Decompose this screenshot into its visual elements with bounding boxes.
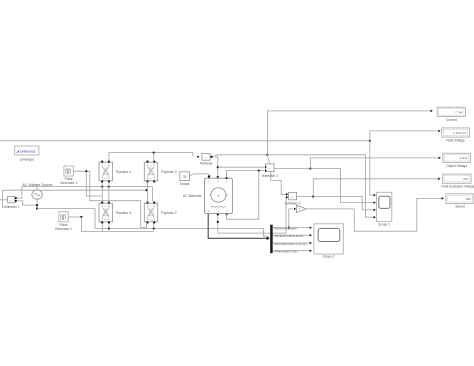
node junction pulse1 at (86.3,171.2) (85, 170, 87, 172)
label Voltmeter 3 (285, 201, 301, 205)
thyristor Thyristor 4 (99, 202, 112, 224)
wire A+ to Voltmeter2 port1 (218, 166, 265, 168)
wire F- to Voltmeter3 port2 (218, 196, 288, 233)
wire bus output 1 (Speed wm) (273, 226, 312, 229)
node junction V3-out at (313.3,196.5) (312, 195, 314, 197)
scope block Scope 2 (314, 224, 343, 254)
wire A- from DC Machine to junction (227, 171, 259, 220)
node junction minus-rail at Th4 (108, 227, 110, 229)
svg-text:+ -: + - (291, 196, 294, 199)
label Thyristor 4 (115, 211, 131, 215)
ammeter block Ammeter (202, 153, 213, 160)
svg-text:K: K (299, 207, 301, 211)
wire Pulse Generator 2 output (68, 216, 81, 218)
svg-text:Field Excitation Voltage: Field Excitation Voltage (441, 185, 474, 189)
wire Th4 cathode stub (108, 223, 110, 228)
label Scope 2 (323, 255, 335, 259)
wire diagonal stub near Voltmeter2 (267, 155, 269, 163)
wire net AC1 horizontal y=186.6 (22, 186, 153, 188)
node junction ammeter-signal at (267.4,154.8) (266, 154, 268, 156)
label Voltmeter 1 (3, 205, 19, 209)
display Output Voltage (443, 153, 471, 162)
wire V3 right to Scope1 port3 (313, 197, 376, 212)
display Field Excitation Voltage (443, 174, 472, 183)
svg-text:Generator 2: Generator 2 (55, 227, 72, 231)
wire V1 port1 hook to AC top net (17, 187, 22, 199)
node junction F+ tap at (270.8,170.6) (0, 0, 1, 1)
wire pulse1 branch to Thyristor1 gate (86, 171, 102, 196)
label Field Voltage (446, 138, 465, 142)
svg-text:Scope 2: Scope 2 (323, 255, 335, 259)
label Current (446, 118, 457, 122)
wire Gain input from speed tap (289, 208, 296, 228)
label Thyristor 2 (161, 211, 177, 215)
svg-text:-1.813: -1.813 (459, 156, 468, 160)
wire net minus-rail bottom (95, 229, 269, 237)
wire net plus-rail from Th1/Th3 cathodes to Ammeter (109, 153, 200, 162)
wire V2 right to Scope1 port2 (310, 168, 376, 204)
node junction AC bottom / V1 tap (36, 204, 38, 206)
node junction AC2 at x=146.5 (145, 189, 147, 191)
svg-text:30: 30 (183, 175, 187, 179)
svg-text:Scope 1: Scope 1 (378, 222, 390, 226)
node junction minus-rail at Th2 (153, 227, 155, 229)
svg-text:Ammeter: Ammeter (200, 161, 214, 165)
voltmeter V1 (Voltmeter 1) (8, 197, 17, 203)
wire M2 column Th3 bottom-left to Th2 top-left (147, 182, 149, 203)
thyristor Thyristor 2 (144, 202, 157, 224)
wire Gain output to Speed display via Scope-bypass (306, 197, 444, 231)
pin m output arrow (216, 214, 219, 216)
svg-text:+ -: + - (268, 168, 271, 171)
svg-text:m: m (208, 210, 210, 213)
svg-text:Speed: Speed (455, 205, 464, 209)
svg-text:Thyristor 1: Thyristor 1 (115, 170, 131, 174)
label Pulse Generator 2 (55, 223, 72, 231)
wire net ammeter-signal y=154.8 (216, 155, 268, 157)
wire Voltmeter3 port1 feed from field tap (271, 171, 289, 196)
svg-text:Field Voltage: Field Voltage (446, 138, 465, 142)
constant block Torque (180, 172, 190, 181)
signal label Armature current (273, 234, 304, 238)
wire bus output 3 (Electrical torque) (273, 242, 312, 245)
svg-text:Thyristor 4: Thyristor 4 (115, 211, 131, 215)
wire F+ up and right (227, 171, 265, 177)
wire V1-signal up-branch to Field Voltage display (370, 130, 441, 141)
wire M1 column Th1 bottom-right to Th4 top-right (108, 182, 110, 203)
voltmeter V2 (Voltmeter 2) (265, 164, 274, 172)
pulse generator Pulse Generator 2 (59, 212, 68, 222)
pin F+ input arrow (225, 176, 228, 178)
node junction AC bottom / loop (36, 207, 38, 209)
label DC Machine (183, 194, 202, 198)
svg-text:Thyristor 2: Thyristor 2 (161, 211, 177, 215)
wire pulse2 gate run (81, 217, 154, 232)
svg-text:Output Voltage: Output Voltage (446, 164, 467, 168)
svg-text:<Electrical torque Te (N m)>: <Electrical torque Te (N m)> (273, 242, 307, 246)
wire AC source top stub (36, 187, 38, 190)
pin A+ input arrow (216, 176, 219, 178)
node junction F- at (217.8,221.8) (217, 221, 219, 223)
svg-text:Current: Current (446, 118, 457, 122)
wire Pulse Generator 1 output (73, 170, 90, 172)
label Torque (180, 182, 190, 186)
node junction at (369.8,140.8) (369, 140, 371, 142)
wire V1-signal down-branch to Scope1 port1 (370, 141, 376, 197)
wire A+ column (217, 157, 219, 176)
signal label Speed wm (273, 227, 298, 231)
wire Voltmeter 2 output (274, 167, 310, 169)
signal label Field current (273, 250, 298, 254)
wire V1 port2 hook to AC bottom node (17, 201, 37, 205)
label Scope 1 (378, 222, 390, 226)
label powergui (20, 158, 34, 162)
signal label Electrical torque (273, 242, 307, 246)
wire Th2 cathode stub (153, 223, 155, 228)
wire V3 up to Field Excitation Voltage display (313, 177, 440, 196)
wire bus output 2 (Armature current) (273, 234, 312, 237)
wire gate column x=102.3 (Th1 gate / Th4 gate) (101, 182, 103, 202)
svg-text:Voltmeter 3: Voltmeter 3 (285, 201, 301, 205)
node junction AC1 at x=102.3 (101, 186, 103, 188)
powergui block (15, 146, 39, 155)
node junction pulse2 at (81.4,217.0) (80, 216, 82, 218)
label Pulse Generator 1 (60, 177, 77, 185)
wire AC1 drop to Thyristor2 top-right (152, 187, 154, 202)
svg-text:<Speed wm (rad/s)>: <Speed wm (rad/s)> (273, 227, 298, 231)
wire V1 output to left edge (0, 199, 8, 201)
wire V2 up to Output Voltage display (310, 157, 441, 169)
svg-text:<Armature current ia (A)>: <Armature current ia (A)> (273, 234, 304, 238)
wire net AC-bottom to bridge bottom rail (37, 209, 95, 229)
display Current (437, 107, 465, 116)
svg-text:Thyristor 3: Thyristor 3 (161, 170, 177, 174)
wire bus output 4 (Field current) (273, 249, 312, 252)
ac source AC Voltage Source (32, 190, 42, 199)
svg-text:7.744: 7.744 (455, 110, 463, 114)
svg-text:Torque: Torque (180, 182, 190, 186)
thyristor Thyristor 3 (144, 161, 157, 183)
node junction plus-rail at Th3 (153, 152, 155, 154)
wire Thyristor4 gate stub from pulse2 (101, 223, 103, 231)
svg-text:Generator 1: Generator 1 (60, 181, 77, 185)
node junction V2-out at (310.4,168.5) (309, 167, 311, 169)
node junction AC1 at x=108.7 (108, 186, 110, 188)
thyristor Thyristor 1 (99, 161, 112, 183)
node junction F+/A- at (258.8,170.6) (258, 170, 260, 172)
display Speed (446, 194, 474, 204)
label Voltmeter 2 (262, 174, 278, 178)
dc machine block DC Machine (205, 178, 233, 213)
wire net V1-signal long line y=141 (0, 140, 370, 142)
display Field Voltage (442, 128, 470, 137)
wire AC source bottom stub (36, 199, 38, 208)
gain block Gain (296, 205, 306, 212)
label Thyristor 1 (115, 170, 131, 174)
wire ammeter-signal right to Scope1 port4 (267, 155, 376, 219)
svg-text:+ -: + - (10, 199, 13, 202)
svg-text:<Field current if (A)>: <Field current if (A)> (273, 250, 298, 254)
voltmeter V3 (Voltmeter 3) (289, 192, 297, 199)
svg-text:2.167e-15: 2.167e-15 (453, 131, 466, 135)
wire net AC2 left loop (2, 190, 146, 208)
wire Voltmeter 3 output (297, 196, 314, 198)
svg-text:840: 840 (466, 197, 471, 201)
label AC Voltage Source (22, 183, 52, 187)
wire Torque output to DC Machine TL (189, 174, 210, 178)
label Field Excitation Voltage (441, 185, 474, 189)
bus selector bar (270, 225, 273, 254)
label Thyristor 3 (161, 170, 177, 174)
wire Ammeter output to A+ column (213, 156, 218, 158)
svg-text:Voltmeter 2: Voltmeter 2 (262, 174, 278, 178)
pulse generator Pulse Generator 1 (64, 166, 73, 176)
node junction A+ at (217.8,167.2) (217, 166, 219, 168)
label Output Voltage (446, 164, 467, 168)
wire pulse1 branch to Thyristor2 gate (90, 171, 147, 227)
svg-text:Voltmeter 1: Voltmeter 1 (3, 205, 19, 209)
svg-text:Continuous: Continuous (18, 149, 35, 153)
node junction gain tap at (288.8,227.6) (288, 227, 290, 229)
wire ammeter-signal up to Current display (267, 110, 432, 155)
svg-text:240: 240 (463, 177, 468, 181)
label Speed (455, 205, 464, 209)
label Ammeter (200, 161, 214, 165)
svg-text:powergui: powergui (20, 158, 34, 162)
scope block Scope 1 (376, 192, 391, 221)
wire Th3 cathode stub (153, 153, 155, 162)
svg-text:DC Machine: DC Machine (183, 194, 202, 198)
pin TL input arrow (208, 176, 211, 178)
wire m measurement (dark) to Bus Selector (208, 214, 270, 240)
pin F- arrow (225, 214, 228, 216)
